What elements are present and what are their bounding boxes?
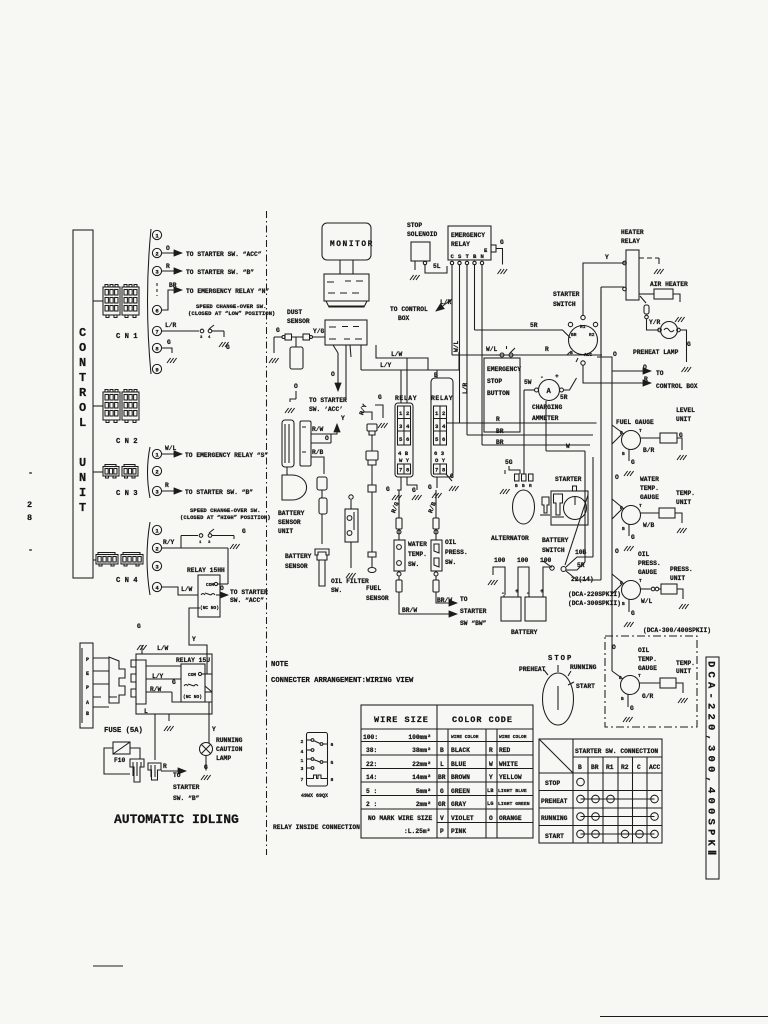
wire control unit to CN2 — [93, 405, 103, 407]
svg-text:YELLOW: YELLOW — [499, 774, 522, 781]
svg-text:NO MARK WIRE SIZE: NO MARK WIRE SIZE — [368, 815, 432, 822]
svg-text:TO: TO — [173, 772, 181, 779]
svg-text:L/W: L/W — [157, 645, 169, 652]
svg-text:T: T — [638, 673, 641, 679]
svg-text:G: G — [242, 528, 246, 535]
svg-text:R: R — [79, 386, 88, 400]
svg-text:4: 4 — [301, 749, 304, 755]
svg-text:R/W: R/W — [312, 426, 324, 433]
svg-text:(DCA-220SPKII): (DCA-220SPKII) — [568, 591, 621, 598]
svg-text:2: 2 — [301, 739, 304, 745]
svg-text:WHITE: WHITE — [499, 761, 518, 768]
press unit resistor — [661, 584, 677, 594]
svg-text:TO EMERGENCY RELAY “N”: TO EMERGENCY RELAY “N” — [186, 288, 269, 295]
svg-text:BATTERY: BATTERY — [285, 553, 312, 560]
svg-text:O: O — [79, 341, 88, 355]
svg-text:STOP: STOP — [545, 780, 560, 787]
svg-text:TEMP.: TEMP. — [640, 485, 659, 492]
svg-text:T: T — [466, 253, 470, 260]
svg-text:WIRE COLOR: WIRE COLOR — [499, 734, 527, 740]
svg-text:VIOLET: VIOLET — [451, 815, 474, 822]
svg-text:2 :: 2 : — [366, 801, 377, 808]
svg-text:AMMETER: AMMETER — [532, 415, 559, 422]
oil filter sw ground — [346, 573, 356, 578]
relay inside coil — [307, 775, 328, 779]
svg-text:WATER: WATER — [408, 541, 427, 548]
svg-text:FUEL: FUEL — [366, 585, 381, 592]
fuse F10 — [113, 742, 130, 754]
svg-text:HEATER: HEATER — [621, 229, 644, 236]
svg-text:SPEED CHANGE-OVER SW.: SPEED CHANGE-OVER SW. — [196, 303, 267, 310]
svg-text:G: G — [412, 487, 416, 494]
connector CN4 — [96, 553, 118, 567]
svg-text:3: 3 — [155, 269, 159, 276]
svg-text:B: B — [86, 711, 89, 717]
svg-text:7: 7 — [435, 467, 438, 474]
svg-text:TO CONTROL: TO CONTROL — [390, 306, 428, 313]
stop row circle — [577, 778, 585, 786]
CN3 pin 3 — [152, 486, 161, 495]
CN1 pin 3 — [152, 266, 161, 275]
heater relay dashed output to ground — [639, 257, 659, 259]
svg-text:8: 8 — [155, 346, 159, 353]
alternator body — [513, 490, 535, 524]
svg-text:BR/W: BR/W — [402, 607, 417, 614]
svg-text:R: R — [545, 346, 549, 353]
svg-text:R: R — [163, 763, 167, 770]
svg-text:O: O — [79, 401, 88, 415]
svg-text:LIGHT GREEN: LIGHT GREEN — [498, 801, 530, 807]
heater relay box — [626, 250, 639, 300]
svg-text:T: T — [639, 503, 642, 509]
svg-text:TEMP.: TEMP. — [408, 551, 427, 558]
svg-text:B: B — [522, 483, 525, 489]
svg-text:(DCA-300/400SPKII): (DCA-300/400SPKII) — [643, 627, 711, 634]
svg-text:E: E — [484, 247, 488, 254]
svg-text:EMERGENCY: EMERGENCY — [451, 232, 485, 239]
svg-text:S: S — [458, 253, 462, 260]
start dial — [543, 673, 574, 725]
svg-text:6 3: 6 3 — [434, 450, 445, 457]
svg-text:L/R: L/R — [165, 322, 177, 329]
svg-text:5 :: 5 : — [366, 788, 377, 795]
svg-text:CHARGING: CHARGING — [532, 404, 562, 411]
svg-text:O: O — [325, 435, 329, 442]
svg-text:START: START — [576, 683, 595, 690]
heavy wires battery switch — [566, 457, 593, 567]
svg-text:100: 100 — [517, 557, 529, 564]
svg-text:B: B — [440, 747, 444, 754]
svg-text:5R: 5R — [560, 394, 568, 401]
oil temp gauge ground — [627, 694, 629, 707]
svg-text:STOP: STOP — [548, 655, 573, 663]
CN4 pin 1 — [152, 525, 161, 534]
svg-text:SW.: SW. — [445, 559, 456, 566]
svg-text:SENSOR: SENSOR — [285, 563, 308, 570]
svg-text:GRAY: GRAY — [451, 801, 466, 808]
svg-text:GREEN: GREEN — [451, 788, 470, 795]
svg-text:O: O — [615, 474, 619, 481]
relay 15U contact — [184, 684, 198, 686]
svg-text:100: 100 — [494, 557, 506, 564]
svg-text:W: W — [489, 761, 493, 768]
svg-text:W/L: W/L — [453, 340, 460, 352]
svg-text:R2: R2 — [589, 332, 595, 338]
stop solenoid box — [411, 242, 430, 261]
svg-text:4 B: 4 B — [398, 450, 409, 457]
svg-text:T: T — [79, 501, 88, 515]
svg-text:9: 9 — [155, 367, 159, 374]
svg-text:100:: 100: — [363, 734, 378, 741]
CN3 pin 2 — [152, 466, 161, 475]
svg-text:+: + — [515, 588, 519, 595]
svg-text:5R: 5R — [530, 322, 538, 329]
svg-text:LIGHT BLUE: LIGHT BLUE — [498, 788, 527, 794]
plug P1 — [130, 759, 144, 782]
stop solenoid output 5L — [423, 261, 426, 264]
starter box — [551, 491, 588, 525]
svg-text:R/B: R/B — [312, 449, 324, 456]
svg-text:RELAY: RELAY — [451, 241, 470, 248]
svg-text:ALTERNATOR: ALTERNATOR — [491, 535, 529, 542]
svg-text:G: G — [226, 344, 230, 351]
svg-text:22mm²: 22mm² — [412, 761, 431, 768]
svg-text:PREHEAT: PREHEAT — [541, 798, 568, 805]
svg-text:G: G — [500, 239, 504, 246]
svg-text:38:: 38: — [366, 747, 377, 754]
svg-text:L: L — [144, 708, 148, 715]
svg-text:P: P — [86, 685, 89, 691]
svg-text:3: 3 — [155, 489, 159, 496]
svg-text:Y: Y — [489, 774, 493, 781]
svg-text:SOLENOID: SOLENOID — [407, 231, 437, 238]
dust sensor body — [290, 347, 303, 369]
svg-text:2: 2 — [406, 410, 410, 417]
svg-text:AUTOMATIC IDLING: AUTOMATIC IDLING — [114, 812, 239, 827]
svg-text:1: 1 — [155, 233, 159, 240]
oil filter sw body — [345, 509, 358, 542]
fuel gauge ground — [628, 449, 630, 461]
water temp sw lower chain — [397, 572, 401, 576]
svg-text:G: G — [172, 679, 176, 686]
start row circles — [577, 830, 659, 838]
svg-text:SW.: SW. — [408, 561, 419, 568]
svg-text:T: T — [79, 371, 88, 385]
svg-text:W/B: W/B — [643, 522, 655, 529]
svg-text:STOP: STOP — [407, 222, 422, 229]
svg-text:UNIT: UNIT — [670, 575, 685, 582]
svg-text:BR: BR — [438, 774, 446, 781]
relay 1 grid — [398, 406, 411, 445]
svg-text:22:: 22: — [366, 761, 377, 768]
svg-text:CONNECTER ARRANGEMENT:WIRING V: CONNECTER ARRANGEMENT:WIRING VIEW — [271, 677, 414, 685]
svg-text:UNIT: UNIT — [278, 528, 293, 535]
svg-text:LG: LG — [487, 801, 493, 807]
svg-text:LB: LB — [487, 788, 494, 794]
CN3 pin 1 — [152, 449, 161, 458]
svg-text:100mm²: 100mm² — [408, 734, 431, 741]
svg-text:T: T — [639, 578, 642, 584]
CN1 pin brace — [148, 229, 152, 374]
svg-text:(NC NO): (NC NO) — [200, 605, 219, 611]
svg-text:R: R — [165, 482, 169, 489]
svg-text:2: 2 — [442, 410, 446, 417]
svg-text:U: U — [79, 456, 88, 470]
svg-text:(NC NO): (NC NO) — [183, 694, 202, 700]
svg-text:1: 1 — [399, 410, 403, 417]
svg-text:G: G — [687, 341, 691, 348]
svg-text:5W: 5W — [524, 379, 532, 386]
svg-text:RELAY: RELAY — [431, 395, 453, 402]
svg-text:O: O — [613, 351, 617, 358]
svg-text:B: B — [622, 451, 625, 457]
CN1 pin 1 — [152, 230, 161, 239]
svg-text:Y: Y — [341, 415, 345, 422]
CN4 pin 4 — [152, 582, 161, 591]
svg-text:STOP: STOP — [487, 378, 502, 385]
svg-text:LAMP: LAMP — [216, 755, 231, 762]
svg-text:O Y: O Y — [435, 457, 446, 464]
svg-text:G: G — [386, 486, 390, 493]
svg-text:2: 2 — [155, 546, 159, 553]
svg-text:BR/W: BR/W — [437, 597, 452, 604]
svg-text:2mm²: 2mm² — [416, 801, 431, 808]
svg-text:6: 6 — [442, 436, 446, 443]
svg-text:(DCA-300SPKII): (DCA-300SPKII) — [568, 600, 621, 607]
svg-text:SW “BW”: SW “BW” — [460, 620, 487, 627]
svg-text:P: P — [440, 828, 444, 835]
svg-text:C: C — [637, 764, 641, 771]
starter to battery switch diagonal — [565, 495, 588, 565]
svg-text:BATTERY: BATTERY — [542, 537, 569, 544]
svg-text:(CLOSED AT “LOW” POSITION): (CLOSED AT “LOW” POSITION) — [188, 310, 275, 317]
svg-text:AIR HEATER: AIR HEATER — [650, 281, 688, 288]
svg-text:O: O — [489, 815, 493, 822]
svg-text:2: 2 — [155, 251, 159, 258]
svg-text:TEMP.: TEMP. — [676, 660, 695, 667]
svg-text:B: B — [622, 601, 625, 607]
svg-text:W/L: W/L — [486, 346, 498, 353]
svg-text:BR: BR — [496, 428, 504, 435]
svg-text:-: - — [28, 545, 34, 555]
svg-text:TO STARTER: TO STARTER — [230, 589, 268, 596]
svg-text:-: - — [540, 374, 544, 381]
svg-text:C N 2: C N 2 — [116, 438, 138, 446]
svg-text:1: 1 — [301, 758, 304, 764]
svg-text:SENSOR: SENSOR — [366, 595, 389, 602]
svg-text:3: 3 — [155, 564, 159, 571]
svg-text:OIL: OIL — [445, 539, 457, 546]
running caution lamp — [200, 743, 213, 756]
svg-text:TO STARTER SW. “ACC”: TO STARTER SW. “ACC” — [186, 251, 262, 258]
svg-text:5G: 5G — [505, 459, 513, 466]
svg-text:FUSE (5A): FUSE (5A) — [104, 727, 143, 735]
svg-text:W/L: W/L — [641, 598, 653, 605]
svg-text:GAUGE: GAUGE — [638, 569, 657, 576]
level unit resistor — [660, 433, 677, 443]
svg-text:G: G — [630, 705, 634, 712]
wire BR/W to starter bw — [399, 592, 457, 614]
svg-text:SPEED CHANGE-OVER SW.: SPEED CHANGE-OVER SW. — [190, 507, 261, 514]
svg-text:N: N — [481, 253, 484, 260]
svg-text:BR: BR — [591, 764, 599, 771]
svg-text:5L: 5L — [433, 263, 441, 270]
inline fuse to preheat lamp — [644, 305, 649, 314]
svg-text:RELAY: RELAY — [395, 395, 417, 402]
svg-text:V: V — [440, 815, 444, 822]
svg-text:O: O — [220, 585, 224, 592]
svg-text:Y/R: Y/R — [649, 319, 661, 326]
svg-text:SW.: SW. — [331, 587, 342, 594]
svg-text:UNIT: UNIT — [676, 416, 691, 423]
wires strip to plug — [93, 658, 109, 707]
oil press gauge ground — [628, 599, 630, 612]
relay 15U output wire right — [205, 691, 212, 693]
svg-text:DCA-220,300,400SPKⅡ: DCA-220,300,400SPKⅡ — [705, 661, 718, 859]
svg-text:BOX: BOX — [398, 315, 410, 322]
svg-text:49WX 69QX: 49WX 69QX — [301, 793, 328, 799]
starter sw connection table — [539, 739, 662, 843]
oil press gauge — [622, 581, 641, 600]
wire relay NC down Y — [189, 608, 207, 658]
svg-text:B: B — [473, 253, 477, 260]
svg-text:100: 100 — [540, 557, 552, 564]
svg-text:L/R: L/R — [462, 382, 469, 394]
svg-text:SWITCH: SWITCH — [542, 547, 565, 554]
svg-text:4: 4 — [406, 423, 410, 430]
svg-text:PREHEAT: PREHEAT — [519, 666, 546, 673]
relay 1 housing — [395, 403, 413, 477]
svg-text:L/Y: L/Y — [152, 673, 164, 680]
svg-text:WIRE COLOR: WIRE COLOR — [451, 734, 479, 740]
svg-text:W/L: W/L — [165, 445, 177, 452]
CN1 pin 7 — [152, 326, 161, 335]
svg-text:TO STARTER SW. “B”: TO STARTER SW. “B” — [185, 489, 253, 496]
svg-text:PREHEAT LAMP: PREHEAT LAMP — [633, 349, 679, 356]
svg-text:L/Y: L/Y — [380, 362, 392, 369]
svg-text:N: N — [79, 471, 88, 485]
svg-text:G/R: G/R — [642, 693, 654, 700]
wire control unit to CN4 — [93, 559, 96, 561]
svg-text:Y: Y — [192, 636, 196, 643]
starter solenoid plug — [554, 494, 563, 515]
svg-text:R: R — [166, 263, 170, 270]
svg-text:BATTERY: BATTERY — [278, 510, 305, 517]
svg-text:1: 1 — [199, 541, 202, 545]
svg-text:5: 5 — [331, 760, 334, 766]
svg-text:CAUTION: CAUTION — [216, 746, 243, 753]
svg-text:N: N — [79, 356, 88, 370]
CN1 pin 9 — [152, 364, 161, 373]
svg-text:B: B — [570, 350, 573, 356]
water temp sw body — [394, 540, 405, 571]
water temp gauge — [622, 506, 641, 525]
dust sensor ground — [273, 337, 275, 353]
svg-text:G: G — [378, 394, 382, 401]
svg-text:R/Y: R/Y — [358, 403, 369, 416]
fuse loop wire — [104, 748, 140, 774]
svg-text:CONTROL BOX: CONTROL BOX — [656, 383, 698, 390]
heater relay switch contact — [640, 296, 646, 303]
svg-text:6: 6 — [155, 308, 159, 315]
svg-text:TO EMERGENCY RELAY “S”: TO EMERGENCY RELAY “S” — [185, 452, 268, 459]
emergency relay box — [448, 226, 491, 260]
svg-text:8: 8 — [442, 467, 446, 474]
svg-text:RELAY 15HH: RELAY 15HH — [187, 567, 225, 574]
svg-text:O: O — [615, 548, 619, 555]
svg-text:G: G — [137, 623, 141, 630]
svg-text:OIL: OIL — [638, 551, 650, 558]
svg-text:G: G — [276, 327, 280, 334]
svg-text:1: 1 — [155, 452, 159, 459]
svg-text:L: L — [79, 416, 88, 430]
oil press sw body — [431, 540, 442, 571]
svg-text:7: 7 — [155, 329, 158, 336]
svg-text:O: O — [166, 245, 170, 252]
speed change-over switch high — [181, 535, 198, 537]
svg-text:3: 3 — [208, 541, 211, 545]
control unit box — [73, 230, 93, 578]
alternator pins — [515, 474, 520, 481]
svg-text:4: 4 — [208, 336, 211, 340]
svg-text:TO STARTER SW. “B”: TO STARTER SW. “B” — [186, 269, 254, 276]
air heater resistor — [654, 289, 673, 299]
svg-text:2: 2 — [27, 500, 33, 510]
svg-text:RED: RED — [499, 747, 511, 754]
svg-text:3: 3 — [399, 423, 403, 430]
temp unit resistor — [659, 508, 675, 518]
CN1 pin gap mark — [156, 283, 158, 296]
relay 15U box — [181, 664, 205, 702]
temp unit resistor 2 — [660, 678, 676, 688]
oil press sw lower chain — [434, 572, 438, 576]
battery sensor body — [315, 549, 329, 586]
svg-text:C: C — [451, 253, 455, 260]
CN1 pin 8 — [152, 343, 161, 352]
svg-text:G: G — [631, 534, 635, 541]
svg-text:1: 1 — [155, 528, 159, 535]
svg-text:F10: F10 — [114, 757, 126, 764]
svg-text:L: L — [440, 761, 444, 768]
svg-text:G: G — [631, 459, 635, 466]
relay 15HH box — [198, 575, 220, 617]
svg-text:W: W — [566, 443, 570, 450]
svg-text:W Y: W Y — [399, 457, 410, 464]
svg-text:GR: GR — [438, 801, 446, 808]
svg-text:PRESS.: PRESS. — [638, 560, 661, 567]
svg-text:14mm²: 14mm² — [412, 774, 431, 781]
svg-text:(CLOSED AT “HIGH” POSITION): (CLOSED AT “HIGH” POSITION) — [180, 514, 271, 521]
running row circles — [577, 813, 659, 821]
svg-text:14:: 14: — [366, 774, 377, 781]
svg-text:RUNNING: RUNNING — [541, 815, 568, 822]
svg-text:Y/G: Y/G — [313, 328, 325, 335]
svg-text:MONITOR: MONITOR — [330, 241, 374, 249]
plug P2 — [148, 763, 161, 780]
CN1 pin 6 — [152, 305, 161, 314]
wire control unit to CN1 — [93, 300, 103, 302]
svg-text:BLUE: BLUE — [451, 761, 466, 768]
svg-text:NOTE: NOTE — [271, 661, 289, 669]
wire box to plug circuit — [154, 714, 156, 760]
wire size color code table — [361, 705, 533, 838]
svg-text:R/Y: R/Y — [163, 539, 175, 546]
oil temp gauge — [621, 676, 640, 695]
svg-text:R1: R1 — [580, 324, 586, 330]
gauge feed diagonals — [612, 425, 624, 584]
svg-text:7: 7 — [399, 467, 402, 474]
svg-text:6: 6 — [406, 436, 410, 443]
